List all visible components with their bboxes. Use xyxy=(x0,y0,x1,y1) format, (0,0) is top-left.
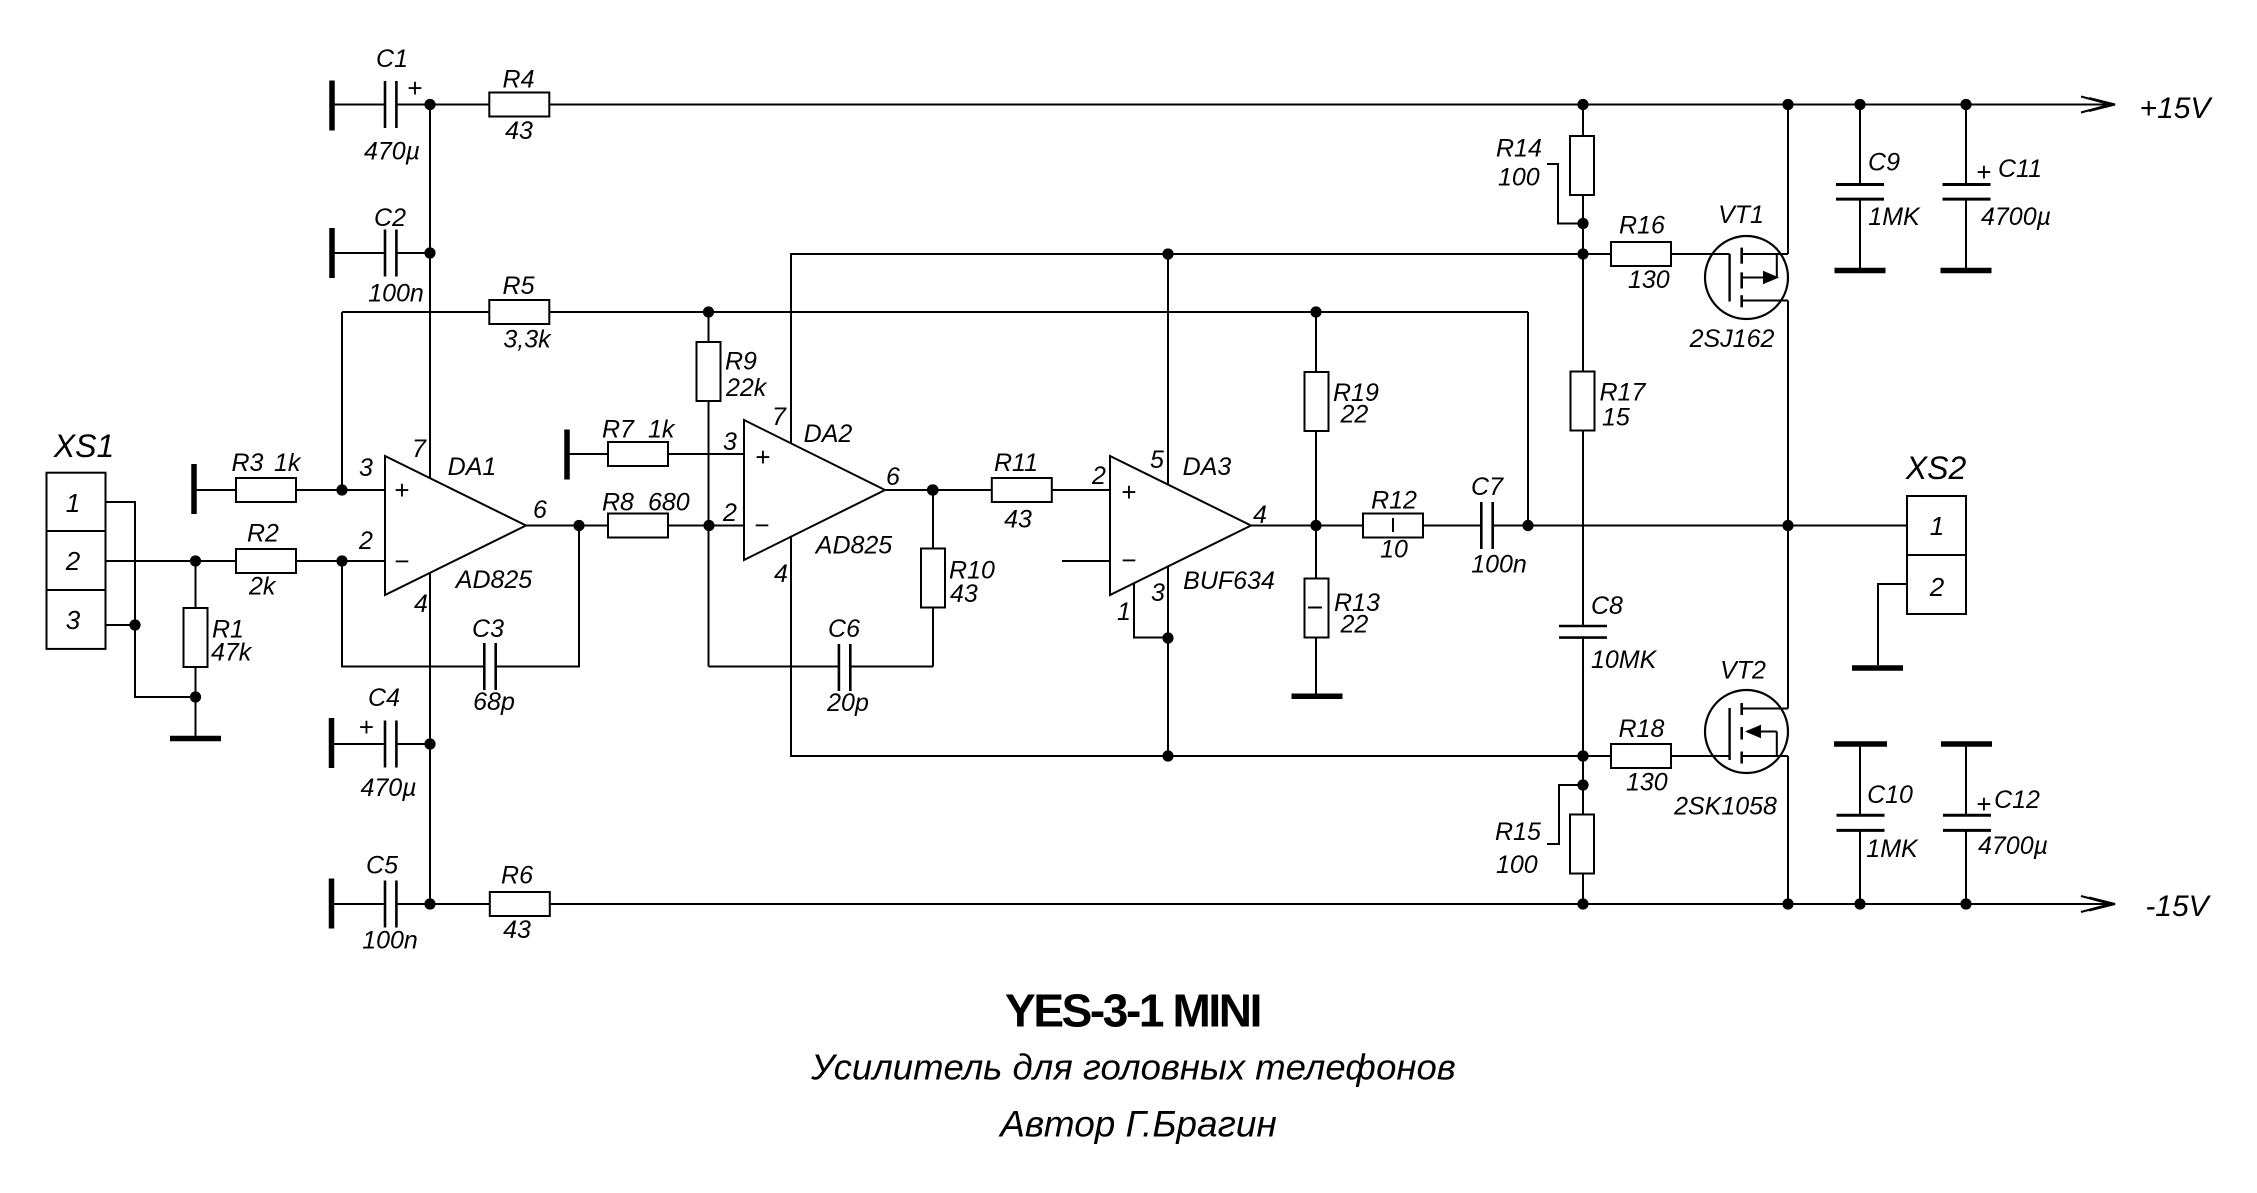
svg-text:Усилитель для головных телефон: Усилитель для головных телефонов xyxy=(810,1047,1456,1088)
svg-text:6: 6 xyxy=(533,496,547,524)
svg-text:VT2: VT2 xyxy=(1720,657,1766,685)
svg-text:R6: R6 xyxy=(501,862,533,890)
svg-text:+: + xyxy=(755,442,770,472)
svg-text:2SJ162: 2SJ162 xyxy=(1689,325,1775,353)
svg-text:C3: C3 xyxy=(472,615,504,643)
svg-text:2: 2 xyxy=(1091,462,1106,490)
svg-text:100: 100 xyxy=(1498,164,1540,192)
svg-text:R7: R7 xyxy=(602,416,635,444)
svg-text:R17: R17 xyxy=(1600,379,1647,407)
svg-text:C11: C11 xyxy=(1998,155,2042,183)
svg-text:+: + xyxy=(394,475,409,505)
svg-text:4: 4 xyxy=(414,590,428,618)
svg-text:-15V: -15V xyxy=(2145,890,2211,923)
svg-text:100n: 100n xyxy=(362,927,418,955)
svg-text:C7: C7 xyxy=(1471,473,1504,501)
svg-text:2k: 2k xyxy=(248,573,277,601)
svg-text:+: + xyxy=(1976,789,1991,819)
svg-text:47k: 47k xyxy=(211,639,253,667)
svg-text:470µ: 470µ xyxy=(360,774,416,802)
svg-text:R2: R2 xyxy=(247,520,279,548)
svg-text:1MK: 1MK xyxy=(1866,835,1919,863)
svg-text:22k: 22k xyxy=(725,374,768,402)
svg-text:+: + xyxy=(407,73,422,103)
svg-text:4700µ: 4700µ xyxy=(1978,832,2048,860)
svg-text:YES-3-1 MINI: YES-3-1 MINI xyxy=(1005,985,1260,1037)
svg-text:100n: 100n xyxy=(1471,551,1527,579)
svg-text:7: 7 xyxy=(412,435,427,463)
svg-text:DA1: DA1 xyxy=(448,453,497,481)
svg-text:C1: C1 xyxy=(376,45,408,73)
svg-text:1: 1 xyxy=(66,488,80,518)
svg-text:22: 22 xyxy=(1340,611,1369,639)
svg-text:DA2: DA2 xyxy=(804,420,853,448)
svg-text:R18: R18 xyxy=(1619,715,1665,743)
svg-text:22: 22 xyxy=(1340,401,1369,429)
svg-text:2: 2 xyxy=(358,527,373,555)
svg-text:2: 2 xyxy=(1929,572,1945,602)
svg-text:680: 680 xyxy=(648,489,690,517)
svg-text:AD825: AD825 xyxy=(454,566,533,594)
svg-text:2SK1058: 2SK1058 xyxy=(1673,793,1777,821)
svg-text:20p: 20p xyxy=(826,689,869,717)
svg-text:+: + xyxy=(1121,477,1136,507)
svg-text:4: 4 xyxy=(1253,501,1267,529)
svg-text:VT1: VT1 xyxy=(1718,201,1764,229)
svg-text:R11: R11 xyxy=(994,449,1038,477)
svg-text:R12: R12 xyxy=(1371,487,1417,515)
svg-text:−: − xyxy=(394,546,409,576)
svg-text:470µ: 470µ xyxy=(364,138,420,166)
svg-text:C5: C5 xyxy=(366,852,398,880)
svg-text:R4: R4 xyxy=(503,66,535,94)
svg-text:43: 43 xyxy=(503,916,531,944)
svg-text:15: 15 xyxy=(1602,404,1630,432)
svg-text:3: 3 xyxy=(1151,579,1165,607)
svg-text:43: 43 xyxy=(950,580,978,608)
svg-text:43: 43 xyxy=(505,117,533,145)
svg-text:100n: 100n xyxy=(368,280,424,308)
svg-text:7: 7 xyxy=(772,403,787,431)
svg-text:BUF634: BUF634 xyxy=(1183,567,1275,595)
svg-text:3: 3 xyxy=(359,454,373,482)
svg-text:5: 5 xyxy=(1150,446,1164,474)
svg-text:R8: R8 xyxy=(602,489,634,517)
svg-text:4700µ: 4700µ xyxy=(1981,203,2051,231)
svg-text:−: − xyxy=(754,510,769,540)
svg-text:68p: 68p xyxy=(473,688,515,716)
svg-text:DA3: DA3 xyxy=(1183,453,1232,481)
svg-text:3: 3 xyxy=(723,428,737,456)
svg-text:4: 4 xyxy=(774,560,788,588)
svg-text:C10: C10 xyxy=(1867,781,1913,809)
svg-text:C4: C4 xyxy=(368,684,400,712)
svg-text:XS2: XS2 xyxy=(1905,450,1967,486)
svg-text:1k: 1k xyxy=(274,449,302,477)
svg-text:3,3k: 3,3k xyxy=(503,326,552,354)
svg-text:R14: R14 xyxy=(1496,135,1542,163)
svg-text:10: 10 xyxy=(1380,536,1408,564)
svg-text:R5: R5 xyxy=(503,272,535,300)
svg-text:XS1: XS1 xyxy=(53,428,114,464)
svg-text:AD825: AD825 xyxy=(814,532,893,560)
svg-text:C12: C12 xyxy=(1994,786,2040,814)
svg-text:100: 100 xyxy=(1496,851,1538,879)
svg-text:C8: C8 xyxy=(1591,592,1623,620)
svg-text:R3: R3 xyxy=(232,449,264,477)
svg-text:2: 2 xyxy=(722,499,737,527)
svg-text:6: 6 xyxy=(886,463,900,491)
svg-text:Автор Г.Брагин: Автор Г.Брагин xyxy=(998,1104,1277,1145)
svg-text:43: 43 xyxy=(1004,506,1032,534)
svg-text:1k: 1k xyxy=(648,416,676,444)
svg-text:R16: R16 xyxy=(1619,212,1665,240)
svg-text:+15V: +15V xyxy=(2140,92,2214,125)
svg-text:C6: C6 xyxy=(828,615,860,643)
svg-text:10MK: 10MK xyxy=(1591,646,1658,674)
svg-text:+: + xyxy=(359,712,374,742)
svg-text:1MK: 1MK xyxy=(1868,203,1921,231)
svg-text:R9: R9 xyxy=(725,348,757,376)
svg-text:3: 3 xyxy=(66,605,81,635)
svg-text:130: 130 xyxy=(1626,769,1668,797)
svg-text:−: − xyxy=(1121,545,1136,575)
svg-text:C2: C2 xyxy=(374,204,406,232)
svg-text:130: 130 xyxy=(1628,266,1670,294)
svg-text:2: 2 xyxy=(65,546,81,576)
svg-text:C9: C9 xyxy=(1868,149,1900,177)
svg-text:1: 1 xyxy=(1117,598,1131,626)
svg-text:1: 1 xyxy=(1930,511,1944,541)
svg-text:R15: R15 xyxy=(1495,818,1541,846)
svg-text:+: + xyxy=(1976,157,1991,187)
